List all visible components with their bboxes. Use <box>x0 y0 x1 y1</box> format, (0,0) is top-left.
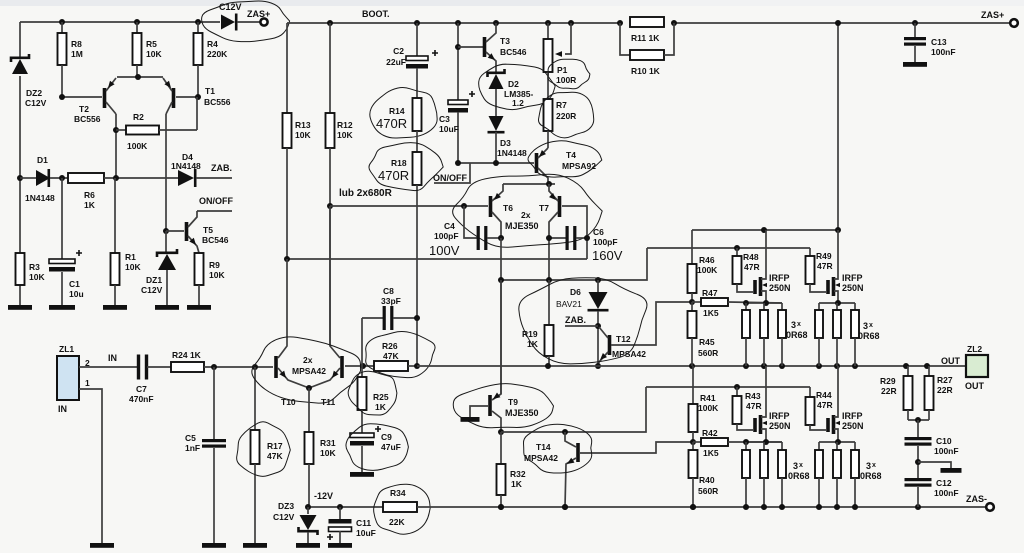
diode D2 LM385-1.2 <box>489 74 504 89</box>
resistor R49 47R <box>809 248 811 256</box>
resistor R19 1K <box>548 280 550 325</box>
wire T1 base to R4 <box>176 96 198 98</box>
svg-text:R7: R7 <box>556 100 567 110</box>
ground under C9 <box>350 472 374 477</box>
svg-text:T3: T3 <box>500 36 510 46</box>
resistor R27 22R <box>928 366 930 376</box>
resistor R8 <box>61 22 63 33</box>
svg-text:R14: R14 <box>389 106 405 116</box>
svg-text:C1: C1 <box>69 279 80 289</box>
svg-text:1N4148: 1N4148 <box>171 161 201 171</box>
svg-text:C12: C12 <box>936 478 952 488</box>
resistor R6 1K <box>68 173 104 183</box>
svg-text:R29: R29 <box>880 376 896 386</box>
svg-text:R10 1K: R10 1K <box>631 66 661 76</box>
svg-text:C8: C8 <box>383 286 394 296</box>
ground under C13 <box>903 62 927 67</box>
blob around R14 <box>370 87 437 138</box>
capacitor C6 100pF <box>549 237 566 239</box>
svg-text:100nF: 100nF <box>931 47 956 57</box>
svg-text:22K: 22K <box>389 517 405 527</box>
terminal C12V ZAS+ top-left <box>221 15 235 30</box>
resistor R47 1K5 <box>692 301 701 303</box>
transistor T9 MJE350 <box>488 395 492 416</box>
svg-text:MPSA42: MPSA42 <box>524 453 558 463</box>
mosfet M1 IRFP250N upper-left <box>753 280 757 294</box>
svg-text:10K: 10K <box>295 130 311 140</box>
node T12 emitter-rail <box>595 363 601 369</box>
svg-text:IN: IN <box>108 353 117 363</box>
svg-text:10K: 10K <box>146 49 162 59</box>
svg-text:R25: R25 <box>373 392 389 402</box>
transistor T14 MPSA42 <box>565 432 576 447</box>
svg-text:BC546: BC546 <box>500 47 527 57</box>
resistor R43 47R <box>734 384 740 390</box>
svg-text:100K: 100K <box>698 403 719 413</box>
svg-text:T4: T4 <box>566 150 576 160</box>
svg-text:C9: C9 <box>381 432 392 442</box>
svg-text:1K: 1K <box>527 339 539 349</box>
blob around T6 T7 <box>453 174 603 247</box>
transistor T6 MJE350 <box>489 196 493 217</box>
wire source bank1 tops <box>746 302 782 304</box>
wire top-left supply rail <box>20 21 220 23</box>
svg-text:10K: 10K <box>320 448 336 458</box>
svg-text:R3: R3 <box>29 262 40 272</box>
node D1 left <box>17 175 23 181</box>
resistor R3 <box>16 253 25 285</box>
svg-text:0R68: 0R68 <box>788 471 810 481</box>
ground under DZ3 <box>296 543 320 548</box>
wire gate line lower y387 <box>646 386 810 388</box>
svg-text:R5: R5 <box>146 39 157 49</box>
diode D3 1N4148 <box>489 116 504 131</box>
svg-text:R44: R44 <box>816 390 832 400</box>
resistors 3x 0R68 bank3 <box>745 442 747 450</box>
resistor R48 47R <box>734 245 740 251</box>
svg-text:10K: 10K <box>209 270 225 280</box>
svg-text:100K: 100K <box>697 265 718 275</box>
resistor R1 <box>114 178 116 253</box>
node R41 bottom <box>690 439 696 445</box>
resistor R41 100K <box>692 366 694 404</box>
svg-text:R26: R26 <box>382 341 398 351</box>
svg-text:ZAS+: ZAS+ <box>981 10 1004 20</box>
capacitor C10 100nF <box>917 420 919 437</box>
blob around C12V terminal <box>202 1 290 42</box>
svg-text:1K5: 1K5 <box>703 448 719 458</box>
resistor R45 560R <box>691 302 693 311</box>
blob around R34 <box>374 484 431 534</box>
svg-text:BC546: BC546 <box>202 235 229 245</box>
svg-text:C5: C5 <box>185 433 196 443</box>
svg-text:R8: R8 <box>71 39 82 49</box>
svg-text:C6: C6 <box>593 227 604 237</box>
svg-text:100K: 100K <box>127 141 148 151</box>
svg-text:C12V: C12V <box>141 285 163 295</box>
blob around R7 <box>538 92 593 138</box>
svg-text:10K: 10K <box>29 272 45 282</box>
svg-text:C12V: C12V <box>273 512 295 522</box>
svg-text:DZ3: DZ3 <box>278 501 294 511</box>
svg-text:IRFP: IRFP <box>842 411 863 421</box>
svg-text:MPSA42: MPSA42 <box>612 349 646 359</box>
node R6-R1 <box>113 175 119 181</box>
svg-text:IRFP: IRFP <box>769 411 790 421</box>
svg-text:100R: 100R <box>556 75 576 85</box>
svg-text:R47: R47 <box>702 288 718 298</box>
blob around T4 <box>528 141 602 177</box>
svg-text:BC556: BC556 <box>74 114 101 124</box>
capacitor C7 470nF <box>137 355 140 380</box>
resistors 3x 0R68 bank2 <box>818 303 820 310</box>
ground ZL1 <box>90 543 114 548</box>
capacitor C13 100nF <box>912 20 918 26</box>
wire T11 base to R26 <box>345 365 374 367</box>
blob around D2 <box>479 64 556 109</box>
mosfet M2 IRFP250N upper-right <box>826 280 830 294</box>
svg-text:R12: R12 <box>337 120 353 130</box>
transistor T2 BC556 <box>103 88 107 108</box>
svg-text:1M: 1M <box>71 49 83 59</box>
svg-text:47R: 47R <box>817 400 833 410</box>
svg-text:10K: 10K <box>125 262 141 272</box>
ground under C1 <box>49 305 75 310</box>
diode D4 1N4148 <box>178 170 194 186</box>
resistor R11 1K (in rail) <box>630 17 664 27</box>
net label ON/OFF left <box>197 210 232 212</box>
svg-text:250N: 250N <box>769 283 791 293</box>
svg-text:0R68: 0R68 <box>860 471 882 481</box>
blob around R25 <box>348 371 397 415</box>
svg-text:100V: 100V <box>429 243 460 258</box>
svg-text:R45: R45 <box>699 337 715 347</box>
svg-text:-12V: -12V <box>314 491 333 501</box>
svg-text:1: 1 <box>85 378 90 388</box>
svg-text:ZAB.: ZAB. <box>211 163 232 173</box>
svg-text:560R: 560R <box>698 348 718 358</box>
svg-text:47K: 47K <box>383 351 399 361</box>
svg-text:C3: C3 <box>439 114 450 124</box>
svg-text:OUT: OUT <box>965 381 985 391</box>
node C8 output <box>414 315 420 321</box>
svg-text:MJE350: MJE350 <box>505 221 539 231</box>
resistor R2 <box>116 129 126 131</box>
wire T2 base to R8 <box>62 96 102 98</box>
capacitor C8 33pF <box>362 317 383 319</box>
svg-text:D2: D2 <box>508 79 519 89</box>
zener diode DZ1 C12V <box>165 231 167 254</box>
blob around T10 T11 <box>252 337 361 403</box>
svg-text:R13: R13 <box>295 120 311 130</box>
ZAS- rail junction dots <box>498 504 504 510</box>
node y206-x464 <box>461 203 467 209</box>
capacitor C1 10u <box>61 178 63 259</box>
capacitor C5 1nF <box>213 367 215 439</box>
svg-text:10uF: 10uF <box>356 528 376 538</box>
wire lower gate feed y432 <box>501 387 646 432</box>
transistor T4 MPSA92 <box>535 153 539 173</box>
node input-C5 <box>211 364 217 370</box>
svg-text:470nF: 470nF <box>129 394 154 404</box>
zener diode DZ3 C12V <box>307 507 309 514</box>
node emitters T10 T11 <box>306 385 312 391</box>
resistor R31 10K <box>308 388 310 432</box>
svg-text:0R68: 0R68 <box>858 331 880 341</box>
wire T2 collector down <box>115 114 117 178</box>
transistor T10 MPSA42 <box>274 356 278 378</box>
svg-text:R17: R17 <box>267 441 283 451</box>
svg-text:DZ1: DZ1 <box>146 275 162 285</box>
ground under C5 <box>202 543 226 548</box>
svg-text:BAV21: BAV21 <box>556 299 582 309</box>
capacitor C4 100pF <box>464 206 477 238</box>
wire drain rail y230 <box>692 229 838 231</box>
svg-text:47uF: 47uF <box>381 442 401 452</box>
svg-text:IRFP: IRFP <box>842 273 863 283</box>
svg-text:R49: R49 <box>816 251 832 261</box>
wire ZL1 pin2 <box>79 366 137 368</box>
transistor T3 BC546 <box>455 20 461 26</box>
svg-text:560R: 560R <box>698 486 718 496</box>
blob around R18 <box>369 143 443 191</box>
svg-text:BC556: BC556 <box>204 97 231 107</box>
svg-text:ZL1: ZL1 <box>59 344 74 354</box>
svg-text:IRFP: IRFP <box>769 273 790 283</box>
svg-text:33pF: 33pF <box>381 296 401 306</box>
svg-text:1K: 1K <box>84 200 96 210</box>
svg-text:1N4148: 1N4148 <box>497 148 527 158</box>
wire source bank3 tops <box>746 441 782 443</box>
negative supply area: -12V rail <box>308 506 383 508</box>
node feedback <box>360 363 366 369</box>
svg-text:R41: R41 <box>700 393 716 403</box>
svg-text:x: x <box>797 321 801 328</box>
wire R29 R27 join <box>908 419 929 421</box>
svg-text:R6: R6 <box>84 190 95 200</box>
svg-text:T14: T14 <box>536 442 551 452</box>
svg-text:IN: IN <box>58 404 67 414</box>
svg-text:R18: R18 <box>391 158 407 168</box>
svg-text:R11 1K: R11 1K <box>631 33 660 43</box>
diode D6 BAV21 <box>597 280 599 292</box>
svg-text:3: 3 <box>863 321 868 331</box>
transistor T1 BC556 <box>172 88 176 108</box>
svg-text:R43: R43 <box>745 391 761 401</box>
svg-text:T1: T1 <box>205 86 215 96</box>
node R5-emitters <box>135 74 141 80</box>
svg-text:ZAB.: ZAB. <box>565 315 586 325</box>
svg-text:1.2: 1.2 <box>512 98 524 108</box>
svg-text:R2: R2 <box>133 112 144 122</box>
ground stub right <box>918 462 951 468</box>
wire ZL1 pin1 to ground <box>79 389 102 543</box>
node T4 collector <box>546 181 552 187</box>
ground T9 base <box>461 417 480 422</box>
wire emitter rail T6-T7 <box>503 183 555 185</box>
svg-text:100nF: 100nF <box>934 446 959 456</box>
svg-text:OUT: OUT <box>941 356 961 366</box>
connector ZL2 <box>966 355 988 377</box>
net label ZAB right <box>595 323 601 329</box>
wire T7 base line y259 <box>287 258 587 260</box>
svg-text:R9: R9 <box>209 260 220 270</box>
blob around P1 label <box>548 59 590 89</box>
blob around C9 <box>346 424 408 471</box>
svg-text:P1: P1 <box>557 65 568 75</box>
svg-text:R46: R46 <box>699 255 715 265</box>
node T14 emitter ZAS- <box>562 504 568 510</box>
wire source bank4 tops <box>819 441 855 443</box>
potentiometer P1 100R <box>545 20 551 26</box>
svg-text:1K: 1K <box>375 402 387 412</box>
svg-text:47R: 47R <box>746 401 762 411</box>
node T5 base / DZ1 <box>163 228 169 234</box>
svg-text:22R: 22R <box>937 385 953 395</box>
svg-text:R24 1K: R24 1K <box>172 350 202 360</box>
svg-text:1K: 1K <box>511 479 523 489</box>
svg-text:C13: C13 <box>931 37 947 47</box>
svg-text:100nF: 100nF <box>934 488 959 498</box>
svg-text:ON/OFF: ON/OFF <box>199 196 233 206</box>
node x330 y206 <box>327 203 333 209</box>
ground under DZ1 <box>155 305 179 310</box>
transistor T7 MJE350 <box>558 196 562 217</box>
svg-text:160V: 160V <box>592 248 623 263</box>
resistor R14 470R <box>413 98 422 131</box>
blob around R26 <box>366 331 435 377</box>
svg-text:lub 2x680R: lub 2x680R <box>339 188 393 199</box>
svg-text:C7: C7 <box>136 384 147 394</box>
node R46 bottom <box>689 299 695 305</box>
svg-text:R40: R40 <box>699 475 715 485</box>
wire source bank2 tops <box>819 302 855 304</box>
node R2 left <box>113 127 119 133</box>
resistor R34 22K (in rail) <box>383 502 417 512</box>
resistor R42 1K5 <box>693 441 701 443</box>
svg-text:3: 3 <box>791 320 796 330</box>
ground under C11 <box>328 543 352 548</box>
wire gate line upper y248 <box>647 247 810 249</box>
wire T6 collector vertical <box>500 238 502 394</box>
svg-text:DZ2: DZ2 <box>26 88 42 98</box>
svg-text:R31: R31 <box>320 438 336 448</box>
svg-text:D6: D6 <box>570 287 581 297</box>
wire VAS node y280 <box>501 248 647 280</box>
wire T4 base line y163 <box>458 162 534 164</box>
node x287 y259 <box>284 256 290 262</box>
capacitor C9 47uF <box>350 433 374 438</box>
svg-text:T9: T9 <box>508 397 518 407</box>
wire T5 base <box>166 230 184 232</box>
svg-text:47K: 47K <box>267 451 283 461</box>
svg-text:x: x <box>869 322 873 329</box>
resistor R10 1K (parallel) <box>617 20 623 26</box>
resistor R17 47K <box>254 367 256 430</box>
svg-text:C11: C11 <box>356 518 371 528</box>
wire left vertical <box>19 22 21 57</box>
wire ZAS- rail <box>417 506 986 508</box>
svg-text:R1: R1 <box>125 252 136 262</box>
capacitor C11 10uF <box>339 507 341 519</box>
svg-text:22R: 22R <box>881 386 897 396</box>
node T9 collector <box>498 429 504 435</box>
svg-text:C2: C2 <box>393 46 404 56</box>
svg-text:T6: T6 <box>503 203 513 213</box>
left vertical from BOOT with R13 <box>286 23 288 113</box>
resistor R7 220R <box>544 99 553 131</box>
svg-text:ZAS+: ZAS+ <box>247 9 270 19</box>
svg-text:x: x <box>799 462 803 469</box>
resistor R40 560R <box>692 442 694 450</box>
svg-text:470R: 470R <box>378 168 409 183</box>
svg-text:470R: 470R <box>376 116 407 131</box>
svg-text:T7: T7 <box>539 203 549 213</box>
wire output rail y366 <box>417 365 966 367</box>
zener diode DZ2 <box>12 59 28 74</box>
mosfet M3 IRFP250N lower-left <box>753 418 757 432</box>
node rail-R8 <box>59 19 65 25</box>
resistor R26 47K <box>374 361 408 371</box>
node R40 bottom <box>690 504 696 510</box>
resistor R25 1K <box>361 366 363 377</box>
mosfet M4 IRFP250N lower-right <box>826 418 830 432</box>
transistor T5 BC546 <box>185 222 189 241</box>
node input-R17 <box>252 364 258 370</box>
resistor R4 <box>197 22 199 33</box>
blob around T14 <box>523 424 591 473</box>
svg-text:ON/OFF: ON/OFF <box>433 173 467 183</box>
resistor R32 1K <box>500 432 502 464</box>
net label ON/OFF right <box>434 163 470 183</box>
svg-text:10u: 10u <box>69 289 84 299</box>
svg-text:R32: R32 <box>510 469 526 479</box>
wire ZAS+ drain feed <box>837 23 839 230</box>
svg-text:C12V: C12V <box>25 98 47 108</box>
svg-text:ZL2: ZL2 <box>967 344 982 354</box>
svg-text:1nF: 1nF <box>185 443 200 453</box>
resistors 3x 0R68 bank4 <box>818 442 820 450</box>
wire T1 collector down <box>165 114 167 231</box>
svg-text:220K: 220K <box>207 49 228 59</box>
svg-text:47R: 47R <box>817 261 833 271</box>
svg-text:22uF: 22uF <box>386 57 406 67</box>
svg-text:R42: R42 <box>702 428 718 438</box>
wire T7 base to right <box>562 206 587 259</box>
node C1 top <box>59 175 65 181</box>
svg-text:R48: R48 <box>743 252 759 262</box>
svg-text:x: x <box>872 462 876 469</box>
capacitor C3 10uF <box>448 100 468 105</box>
capacitor C2 22uF <box>414 20 420 26</box>
wire BOOT rail <box>287 22 619 24</box>
terminal ZAS- <box>986 503 994 511</box>
svg-text:2x: 2x <box>303 355 313 365</box>
svg-text:R27: R27 <box>937 375 953 385</box>
svg-text:250N: 250N <box>842 421 864 431</box>
svg-text:100pF: 100pF <box>593 237 618 247</box>
node C4 right <box>498 235 504 241</box>
resistor R9 <box>195 253 204 285</box>
svg-text:R34: R34 <box>390 488 406 498</box>
ground under R3 <box>8 305 32 310</box>
svg-text:3: 3 <box>793 461 798 471</box>
svg-text:250N: 250N <box>769 421 791 431</box>
wire emitter arch T2-T1 <box>117 76 163 78</box>
ground under R17 <box>243 543 267 548</box>
svg-text:2x: 2x <box>521 210 531 220</box>
connector ZL1 <box>57 356 79 400</box>
